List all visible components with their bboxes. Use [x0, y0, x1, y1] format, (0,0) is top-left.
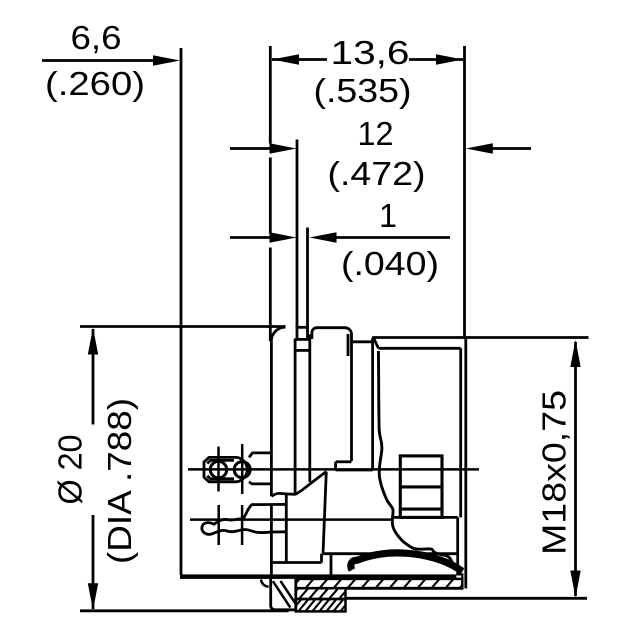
ladder rung 2 — [400, 508, 442, 511]
pin 1 lug inner bottom edge — [207, 476, 234, 479]
barrel chamfer top-left — [373, 338, 378, 349]
ladder contact block outline — [400, 456, 442, 518]
insert right lobe rounded top — [312, 328, 352, 461]
centerline 1 y=469.4 — [188, 468, 479, 471]
pin 2 crosshair vertical 1 — [217, 505, 220, 545]
barrel outer right edge x=465.8 — [464, 338, 467, 589]
pin 2 upper wavy line — [214, 519, 243, 525]
mounting foot outline — [271, 579, 296, 610]
insert bottom step edge y=462.2 — [336, 460, 352, 463]
small hatched block outline — [296, 599, 346, 611]
arrowhead 13,6 right pointing right — [436, 54, 463, 64]
pin 1 circle small — [210, 461, 226, 477]
mid part hatch — [288, 584, 352, 600]
channel wall right below x=309.9 — [308, 334, 311, 482]
fillet flange top to insert left edge — [271, 327, 285, 341]
bar-end outline to body edge — [456, 574, 462, 579]
arrowhead 12 left pointing right — [270, 143, 297, 153]
sleeve bottom edge y=470 — [336, 469, 373, 472]
carrier block wavy top edge with diagonal — [272, 472, 327, 497]
extension line of pin right edge x=307.5 — [306, 228, 309, 340]
dia20 dimension line lower segment — [92, 515, 95, 609]
pin 1 lug inner top edge — [207, 460, 234, 463]
arrowhead dia20 bottom pointing down — [88, 583, 98, 610]
arrowhead dia20 top pointing up — [88, 328, 98, 355]
pin 2 crosshair vertical 2 — [241, 505, 244, 545]
washer strip hatch — [290, 576, 470, 590]
M18 extension line top y=337.5 (barrel top edge continues right) — [372, 336, 588, 339]
washer strip outline — [296, 579, 463, 588]
contact spring thick arc — [351, 553, 463, 571]
pin 1 lug outer outline with rounded cap — [204, 457, 247, 481]
carrier inner vertical x=321.5 — [320, 554, 323, 563]
section break squiggle line — [378, 351, 456, 568]
carrier bottom y=562.5 — [272, 561, 322, 564]
gasket lip arc left of foot — [261, 580, 269, 587]
dimension 12 right leader — [490, 147, 531, 150]
channel wall left below x=294.9 — [294, 339, 297, 495]
panel gasket thick bar — [180, 574, 456, 579]
carrier right edge (slight lean) — [323, 472, 326, 554]
foot hatch line 2 (backslash) — [281, 581, 296, 603]
barrel left edge x=372.6 — [371, 338, 374, 470]
dia20 dimension line upper segment — [92, 329, 95, 425]
svg-text:(.260): (.260) — [45, 65, 145, 102]
M18 extension line bottom y=598.3 — [346, 597, 588, 600]
channel bridge 1 y=339.4 — [295, 338, 310, 341]
pin 2 top S-curve and top edge — [243, 504, 288, 519]
dimension 13,6 line right segment — [409, 58, 463, 61]
extension line top for dia20 + flange top edge y=326.5 — [80, 325, 286, 328]
barrel inner shoulder y=348.3 — [378, 347, 460, 350]
svg-text:13,6: 13,6 — [331, 34, 410, 71]
pin 1 crosshair vertical 1 — [217, 447, 220, 492]
arrowhead M18 bottom pointing down — [570, 571, 580, 598]
svg-text:1: 1 — [379, 197, 397, 234]
svg-text:(.040): (.040) — [341, 245, 439, 282]
svg-text:(.535): (.535) — [314, 72, 412, 109]
foot hatch line 1 (backslash) — [273, 581, 290, 607]
insert lobe inner edge x=348 — [347, 334, 350, 356]
extension line A / flange left face x=181.5 — [180, 48, 183, 575]
small block hatch — [290, 596, 353, 613]
svg-text:M18x0,75: M18x0,75 — [536, 390, 573, 555]
arrowhead 13,6 left pointing left — [272, 54, 299, 64]
barrel inner right edge x=460.7 — [459, 348, 462, 517]
svg-text:Ø 20: Ø 20 — [52, 435, 89, 505]
insert left edge lower segment to gasket bar — [270, 504, 273, 574]
dimension 6,6 leader line — [42, 59, 156, 62]
pin 1 crosshair vertical 2 — [241, 444, 244, 494]
channel bridge 2 y=350.4 — [295, 349, 310, 352]
arrowhead 12 right pointing left — [466, 143, 493, 153]
white strip top y=553.7 — [323, 552, 458, 555]
svg-text:(DIA .788): (DIA .788) — [101, 398, 138, 564]
arrowhead 1 right pointing left — [310, 232, 337, 242]
arrowhead of 6,6 pointing right — [153, 55, 180, 65]
M18 dimension line x=575.5 — [574, 342, 577, 596]
insert left edge x=271.4 down to pin2 step — [270, 341, 273, 496]
strip right inner edge x=457.7 — [456, 517, 459, 574]
sleeve top step y=341.8 — [352, 340, 373, 343]
pin 1 circle big — [234, 462, 250, 478]
white strip left edge x=331 — [330, 554, 333, 575]
svg-text:12: 12 — [358, 115, 394, 152]
svg-text:(.472): (.472) — [328, 155, 426, 192]
centerline 2 y=519.6 — [190, 518, 391, 521]
dimension 1 left leader — [230, 236, 271, 239]
pin 1 stem outline — [249, 453, 271, 484]
extension line C right x=464.5 — [463, 46, 466, 338]
solder pin cap at top y=327.3 — [296, 326, 309, 329]
carrier block left edge x=286.3 — [285, 495, 288, 563]
extension line bottom for dia20 y=610.8 — [80, 609, 289, 612]
dimension 12 left leader — [230, 147, 271, 150]
extension line B x=270.3 (with gaps at arrow crossings) — [269, 46, 272, 341]
svg-text:6,6: 6,6 — [71, 19, 122, 56]
washer bottom line y=588.3 — [346, 587, 464, 590]
part line y=517.4 right — [393, 516, 458, 519]
dimension 13,6 line left segment — [272, 58, 327, 61]
arrowhead 1 left pointing right — [270, 232, 297, 242]
extension line of pin left edge x=297 — [296, 140, 299, 340]
dimension 1 right leader — [333, 236, 450, 239]
pin 2 wavy bottom with hook — [202, 523, 286, 535]
ladder rung 1 — [400, 485, 442, 488]
mid hatched part outline — [296, 588, 346, 599]
step vertical x=335.6 — [334, 462, 337, 470]
arrowhead M18 top pointing up — [570, 340, 580, 367]
